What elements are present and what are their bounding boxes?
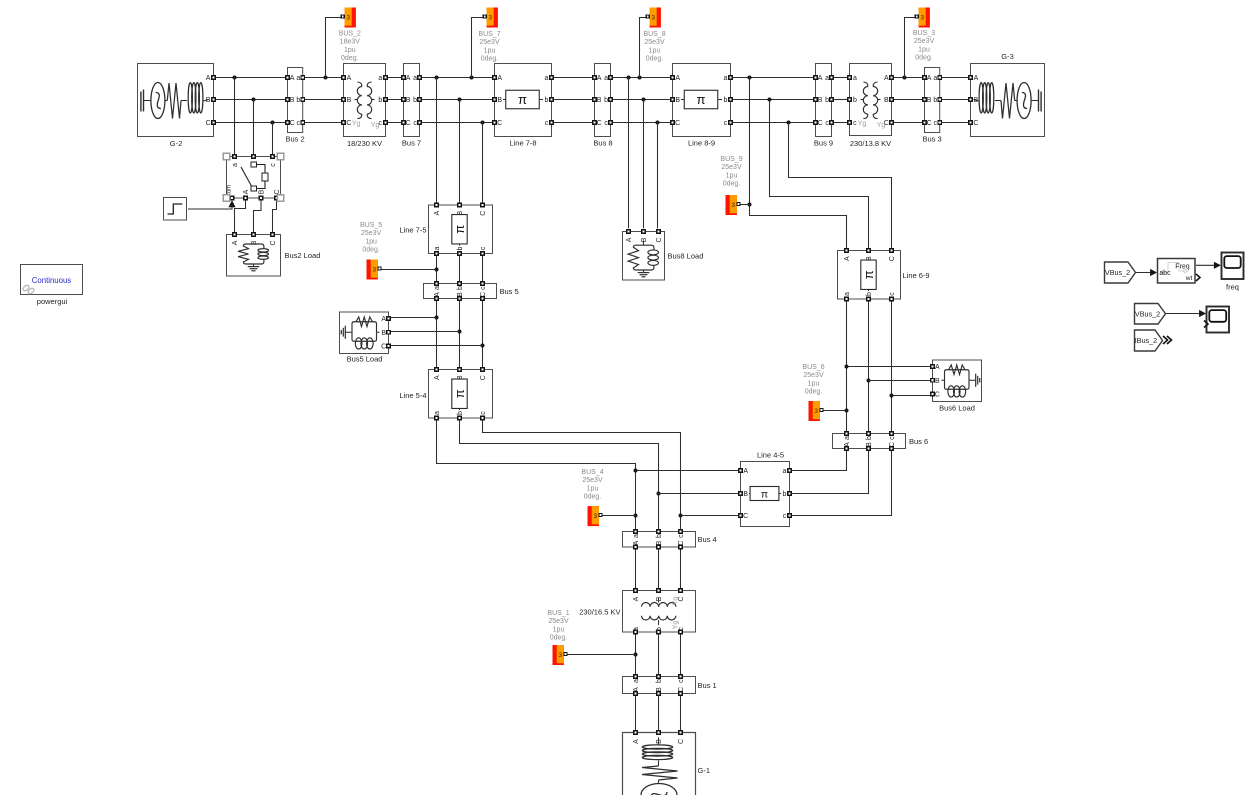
svg-text:G-3: G-3 bbox=[1001, 52, 1014, 61]
wire phase C Bus 3 to G-3 bbox=[941, 122, 968, 124]
node Bus8 Load tap C bbox=[656, 121, 660, 125]
svg-text:b: b bbox=[783, 491, 787, 498]
svg-text:A: A bbox=[597, 75, 602, 82]
node BUS_4 tap bbox=[634, 514, 638, 518]
wire BUS_5 measurement bbox=[381, 269, 436, 271]
svg-text:0deg.: 0deg. bbox=[341, 55, 359, 62]
svg-text:C: C bbox=[675, 120, 680, 127]
svg-text:BUS_5: BUS_5 bbox=[360, 222, 382, 229]
annotation BUS_7 25e3V 1pu 0deg bbox=[478, 31, 500, 63]
svg-text:1pu: 1pu bbox=[726, 172, 738, 179]
svg-text:A: A bbox=[818, 75, 823, 82]
step source block bbox=[164, 198, 187, 221]
svg-text:a: a bbox=[434, 411, 441, 415]
transformer 230/13.8 KV bbox=[848, 64, 894, 136]
svg-text:Line 7-8: Line 7-8 bbox=[509, 139, 536, 148]
svg-text:B: B bbox=[641, 237, 648, 242]
svg-text:0deg.: 0deg. bbox=[805, 389, 823, 396]
label Bus5 Load bbox=[347, 355, 383, 364]
svg-text:C: C bbox=[889, 442, 896, 447]
svg-text:Line 8-9: Line 8-9 bbox=[688, 139, 715, 148]
svg-text:230/16.5 KV: 230/16.5 KV bbox=[579, 608, 620, 617]
bus block Bus 1 bbox=[623, 675, 696, 696]
svg-text:C: C bbox=[270, 240, 277, 245]
svg-text:3: 3 bbox=[373, 266, 377, 273]
svg-text:BUS_2: BUS_2 bbox=[339, 31, 361, 38]
label Bus 2 bbox=[286, 135, 305, 144]
wire Line 6-9 feed B bbox=[770, 100, 869, 250]
svg-text:Bus 2: Bus 2 bbox=[286, 135, 305, 144]
node Line 7-5 tap B bbox=[458, 98, 462, 102]
node Bus5 Load tap A bbox=[435, 316, 439, 320]
svg-text:3: 3 bbox=[920, 14, 924, 21]
bus block Bus 6 bbox=[833, 432, 906, 451]
svg-text:1pu: 1pu bbox=[649, 47, 661, 54]
wire Bus 5 B to Line 5-4 bbox=[459, 300, 461, 367]
ground (inside Bus2 Load) bbox=[248, 264, 260, 271]
powergui block bbox=[21, 265, 83, 295]
svg-text:25e3V: 25e3V bbox=[479, 39, 500, 46]
wire phase A Bus 7 to Line 7-8 bbox=[421, 77, 492, 79]
from tag VBus_2 (freq chain) bbox=[1105, 262, 1136, 283]
wire Bus 6 A to Line 4-5 a bbox=[791, 450, 846, 470]
node Bus5 Load tap B bbox=[458, 330, 462, 334]
svg-text:A: A bbox=[844, 442, 851, 447]
svg-text:Bus2 Load: Bus2 Load bbox=[285, 251, 321, 260]
label powergui bbox=[37, 297, 68, 306]
wire 230/16.5 KV b to Bus 1 bbox=[658, 634, 660, 675]
frequency measurement block abc-Freq-wt bbox=[1158, 259, 1201, 284]
svg-text:A: A bbox=[434, 292, 441, 297]
ground (inside G-3) bbox=[1039, 90, 1042, 112]
svg-text:1pu: 1pu bbox=[365, 238, 377, 245]
svg-text:a: a bbox=[844, 292, 851, 296]
label Line 7-5 bbox=[399, 226, 426, 235]
svg-text:π: π bbox=[861, 270, 876, 279]
svg-text:3: 3 bbox=[346, 14, 350, 21]
wire Bus 4 C to 230/16.5 KV bbox=[680, 549, 682, 589]
svg-text:A: A bbox=[743, 468, 748, 475]
svg-text:A: A bbox=[974, 75, 979, 82]
label G-3 bbox=[1001, 52, 1014, 61]
ground (inside Bus6 Load) bbox=[974, 374, 980, 387]
svg-text:Bus 9: Bus 9 bbox=[814, 139, 833, 148]
svg-text:Yg: Yg bbox=[371, 122, 380, 129]
node Line 6-9 tap A bbox=[748, 76, 752, 80]
node BUS_8 tap bbox=[638, 76, 642, 80]
wire phase A Bus 8 to Line 8-9 bbox=[612, 77, 670, 79]
wire Bus8 Load drop B bbox=[643, 100, 645, 229]
node BUS_5 tap bbox=[435, 268, 439, 272]
svg-text:a: a bbox=[545, 75, 549, 82]
svg-text:1pu: 1pu bbox=[344, 47, 356, 54]
svg-text:b: b bbox=[933, 97, 937, 104]
wire Line 4-5 input A bbox=[636, 470, 739, 472]
wire breaker drop a bbox=[234, 78, 236, 155]
three-phase breaker bbox=[223, 153, 283, 201]
svg-text:0deg.: 0deg. bbox=[481, 56, 499, 63]
wire BUS_9 measurement bbox=[739, 204, 750, 206]
scope BUS_5 bbox=[367, 260, 382, 280]
bus block Bus 5 bbox=[424, 282, 497, 301]
node BUS_3 tap bbox=[903, 76, 907, 80]
svg-text:a: a bbox=[633, 627, 640, 631]
svg-text:A: A bbox=[626, 237, 633, 242]
wire Line 7-5 drop A bbox=[436, 78, 438, 204]
node Bus8 Load tap A bbox=[627, 76, 631, 80]
wire Bus 4 A to 230/16.5 KV bbox=[635, 549, 637, 589]
svg-text:Continuous: Continuous bbox=[32, 276, 72, 285]
svg-text:A: A bbox=[206, 75, 211, 82]
svg-text:Bus6 Load: Bus6 Load bbox=[939, 404, 975, 413]
wire Line 6-9 a to Bus 6 bbox=[846, 300, 848, 431]
label 230/13.8 KV bbox=[850, 139, 891, 148]
wire Bus8 Load drop A bbox=[628, 78, 630, 229]
svg-text:18e3V: 18e3V bbox=[340, 39, 361, 46]
wire phase B 230/13.8 KV to Bus 3 bbox=[892, 99, 923, 101]
svg-text:B: B bbox=[656, 687, 663, 692]
scope BUS_8 bbox=[646, 8, 661, 28]
wire BUS_7 measurement bbox=[472, 18, 485, 78]
svg-text:c: c bbox=[413, 120, 417, 127]
svg-text:1pu: 1pu bbox=[484, 47, 496, 54]
svg-text:BUS_3: BUS_3 bbox=[913, 30, 935, 37]
svg-text:B: B bbox=[497, 97, 502, 104]
bus block Bus 3 bbox=[923, 68, 942, 133]
bus block Bus 7 bbox=[402, 64, 422, 137]
wire phase b Line 7-8 to Bus 8 bbox=[552, 99, 593, 101]
wire phase B Bus 2 to 18/230 KV bbox=[304, 99, 341, 101]
svg-text:c: c bbox=[270, 163, 277, 167]
svg-text:G-1: G-1 bbox=[698, 766, 711, 775]
svg-text:0deg.: 0deg. bbox=[550, 635, 568, 642]
svg-text:B: B bbox=[381, 330, 386, 337]
annotation BUS_2 18e3V 1pu 0deg bbox=[339, 31, 361, 63]
svg-text:IBus_2: IBus_2 bbox=[1135, 336, 1157, 345]
generator G-2 bbox=[138, 64, 216, 137]
svg-text:b: b bbox=[866, 436, 873, 440]
svg-text:A: A bbox=[633, 687, 640, 692]
svg-text:C: C bbox=[381, 344, 386, 351]
svg-text:A: A bbox=[844, 256, 851, 261]
svg-text:C: C bbox=[818, 120, 823, 127]
wire Line 7-5 c to Bus 5 bbox=[482, 255, 484, 282]
scope BUS_3 bbox=[915, 8, 930, 28]
svg-text:25e3V: 25e3V bbox=[914, 38, 935, 45]
svg-text:A: A bbox=[290, 75, 295, 82]
wire breaker B to Bus2 Load bbox=[254, 200, 262, 233]
wire BUS_4 measurement bbox=[601, 515, 635, 517]
ground (inside G-2) bbox=[141, 90, 144, 112]
annotation BUS_8 25e3V 1pu 0deg bbox=[643, 31, 665, 63]
wire BUS_1 measurement bbox=[566, 654, 636, 656]
svg-text:Bus8 Load: Bus8 Load bbox=[668, 252, 704, 261]
wire Bus5 Load B bbox=[391, 331, 460, 333]
svg-text:a: a bbox=[232, 163, 239, 167]
svg-text:Line 7-5: Line 7-5 bbox=[399, 226, 426, 235]
svg-text:π: π bbox=[452, 389, 467, 398]
from tag VBus_2 (scope chain) bbox=[1135, 304, 1166, 325]
node BUS_6 tap bbox=[845, 409, 849, 413]
svg-text:A: A bbox=[633, 739, 640, 744]
svg-text:25e3V: 25e3V bbox=[361, 230, 382, 237]
arrowhead into Scope bbox=[1199, 310, 1206, 317]
svg-text:c: c bbox=[604, 120, 608, 127]
label Line 5-4 bbox=[399, 391, 426, 400]
node Line 7-5 tap A bbox=[435, 76, 439, 80]
svg-text:a: a bbox=[783, 468, 787, 475]
svg-text:c: c bbox=[545, 120, 549, 127]
svg-text:1pu: 1pu bbox=[553, 626, 565, 633]
svg-text:b: b bbox=[656, 679, 663, 683]
svg-text:1pu: 1pu bbox=[587, 485, 599, 492]
svg-text:BUS_9: BUS_9 bbox=[720, 156, 742, 163]
bus block Bus 9 bbox=[814, 64, 834, 137]
wire Line 4-5 input B bbox=[659, 493, 739, 495]
svg-text:Bus5 Load: Bus5 Load bbox=[347, 355, 383, 364]
svg-text:18/230 KV: 18/230 KV bbox=[347, 139, 382, 148]
svg-text:a: a bbox=[724, 75, 728, 82]
scope BUS_9 bbox=[726, 195, 741, 215]
label G-1 bbox=[698, 766, 711, 775]
wire phase C Bus 7 to Line 7-8 bbox=[421, 122, 492, 124]
svg-text:c: c bbox=[678, 534, 685, 538]
wire Bus 6 B to Line 4-5 b bbox=[791, 450, 868, 493]
svg-text:c: c bbox=[889, 436, 896, 440]
svg-text:BUS_4: BUS_4 bbox=[581, 469, 603, 476]
wire phase b 18/230 KV to Bus 7 bbox=[386, 99, 402, 101]
svg-text:C: C bbox=[973, 120, 978, 127]
svg-text:C: C bbox=[678, 739, 685, 744]
node breaker tap B bbox=[252, 98, 256, 102]
svg-text:c: c bbox=[783, 513, 787, 520]
ground (inside Bus5 Load) bbox=[341, 326, 347, 339]
svg-text:BUS_8: BUS_8 bbox=[643, 31, 665, 38]
svg-text:B: B bbox=[675, 97, 680, 104]
svg-text:a: a bbox=[434, 286, 441, 290]
load Bus8 Load bbox=[623, 230, 665, 280]
svg-text:c: c bbox=[934, 120, 938, 127]
scope BUS_4 bbox=[588, 506, 603, 526]
wire VBus_2 to Scope bbox=[1166, 313, 1206, 315]
wire phase A Bus 3 to G-3 bbox=[941, 77, 968, 79]
wire Line 6-9 c to Bus 6 bbox=[891, 300, 893, 431]
node Line 6-9 tap B bbox=[768, 98, 772, 102]
wire phase C Bus 2 to 18/230 KV bbox=[304, 122, 341, 124]
svg-text:wt: wt bbox=[1185, 275, 1193, 282]
node Line 7-5 tap C bbox=[481, 121, 485, 125]
svg-text:0deg.: 0deg. bbox=[723, 181, 741, 188]
svg-text:25e3V: 25e3V bbox=[721, 164, 742, 171]
svg-text:C: C bbox=[497, 120, 502, 127]
pi line Line 4-5 bbox=[739, 462, 792, 527]
annotation BUS_3 25e3V 1pu 0deg bbox=[913, 30, 935, 62]
svg-text:A: A bbox=[434, 211, 441, 216]
svg-text:Bus 4: Bus 4 bbox=[698, 535, 717, 544]
svg-text:A: A bbox=[633, 596, 640, 601]
arrowhead into com port bbox=[228, 200, 235, 207]
svg-text:b: b bbox=[378, 97, 382, 104]
wire 230/16.5 KV c to Bus 1 bbox=[680, 634, 682, 675]
svg-text:3: 3 bbox=[559, 652, 563, 659]
svg-text:B: B bbox=[656, 540, 663, 545]
wire 230/16.5 KV a to Bus 1 bbox=[635, 634, 637, 675]
scope BUS_1 bbox=[553, 645, 568, 665]
svg-text:A: A bbox=[884, 75, 889, 82]
wire Line 7-5 b to Bus 5 bbox=[459, 255, 461, 282]
svg-text:C: C bbox=[274, 189, 281, 194]
svg-text:B: B bbox=[597, 97, 602, 104]
svg-text:1pu: 1pu bbox=[808, 380, 820, 387]
label freq bbox=[1226, 283, 1239, 292]
wire phase a Line 8-9 to Bus 9 bbox=[731, 77, 814, 79]
wire phase B Bus 3 to G-3 bbox=[941, 99, 968, 101]
svg-text:A: A bbox=[243, 189, 250, 194]
scope BUS_2 bbox=[341, 8, 356, 28]
svg-text:25e3V: 25e3V bbox=[582, 477, 603, 484]
wire Line 7-5 drop C bbox=[482, 123, 484, 204]
bus block Bus 4 bbox=[623, 530, 696, 549]
svg-text:C: C bbox=[480, 211, 487, 216]
label Line 7-8 bbox=[509, 139, 536, 148]
node Line 4-5 A branch bbox=[634, 469, 638, 473]
svg-text:B: B bbox=[866, 442, 873, 447]
annotation BUS_5 25e3V 1pu 0deg bbox=[360, 222, 382, 254]
svg-text:b: b bbox=[825, 97, 829, 104]
svg-text:3: 3 bbox=[594, 513, 598, 520]
svg-text:C: C bbox=[206, 120, 211, 127]
wire breaker C to Bus2 Load bbox=[273, 200, 277, 233]
svg-text:π: π bbox=[518, 92, 527, 107]
wire BUS_3 measurement bbox=[905, 18, 917, 78]
svg-text:C: C bbox=[743, 513, 748, 520]
svg-text:powergui: powergui bbox=[37, 297, 68, 306]
svg-text:freq: freq bbox=[1226, 283, 1239, 292]
svg-text:A: A bbox=[347, 75, 352, 82]
wire Line 6-9 feed A bbox=[750, 78, 847, 250]
svg-text:Yg: Yg bbox=[673, 597, 680, 606]
label Line 6-9 bbox=[903, 271, 930, 280]
transformer 18/230 KV bbox=[342, 64, 388, 137]
label Bus 8 bbox=[593, 139, 612, 148]
svg-text:C: C bbox=[480, 375, 487, 380]
svg-text:3: 3 bbox=[732, 202, 736, 209]
svg-text:A: A bbox=[935, 364, 940, 371]
svg-text:abc: abc bbox=[1159, 270, 1171, 277]
wire phase B Bus 7 to Line 7-8 bbox=[421, 99, 492, 101]
svg-text:A: A bbox=[497, 75, 502, 82]
svg-text:A: A bbox=[381, 316, 386, 323]
svg-text:Yg: Yg bbox=[352, 121, 361, 128]
wire phase B G-2 to Bus 2 bbox=[214, 99, 286, 101]
svg-text:b: b bbox=[296, 97, 300, 104]
wire phase c 18/230 KV to Bus 7 bbox=[386, 122, 402, 124]
svg-text:b: b bbox=[656, 627, 663, 631]
wire Line 5-4 c to Bus 4 column bbox=[483, 420, 681, 530]
wire BUS_8 measurement bbox=[640, 18, 648, 78]
svg-text:a: a bbox=[633, 679, 640, 683]
scope (VBus_2/IBus_2) bbox=[1204, 307, 1229, 333]
svg-text:3: 3 bbox=[651, 14, 655, 21]
label Bus 6 bbox=[909, 437, 928, 446]
wire Line 5-4 a to Bus 4 column bbox=[437, 420, 636, 530]
pi line Line 7-8 bbox=[493, 64, 554, 137]
svg-text:A: A bbox=[232, 240, 239, 245]
svg-text:3: 3 bbox=[488, 14, 492, 21]
svg-text:b: b bbox=[656, 534, 663, 538]
wire Line 7-5 drop B bbox=[459, 100, 461, 204]
svg-text:B: B bbox=[818, 97, 823, 104]
wire phase A Bus 2 to 18/230 KV bbox=[304, 77, 341, 79]
wire Bus8 Load drop C bbox=[657, 123, 659, 229]
load Bus6 Load bbox=[931, 360, 982, 402]
wire phase C Bus 9 to 230/13.8 KV bbox=[833, 122, 847, 124]
wire BUS_2 measurement bbox=[326, 18, 343, 78]
wire Bus 6 C to Line 4-5 c bbox=[791, 450, 891, 515]
node Line 6-9 tap C bbox=[787, 121, 791, 125]
svg-text:π: π bbox=[697, 92, 706, 107]
svg-text:Bus 3: Bus 3 bbox=[923, 135, 942, 144]
svg-text:c: c bbox=[853, 120, 857, 127]
node Bus8 Load tap B bbox=[642, 98, 646, 102]
svg-text:Yg: Yg bbox=[877, 122, 886, 129]
node BUS_7 tap bbox=[470, 76, 474, 80]
svg-text:B: B bbox=[743, 491, 748, 498]
svg-text:BUS_7: BUS_7 bbox=[478, 31, 500, 38]
svg-text:1pu: 1pu bbox=[918, 46, 930, 53]
svg-text:C: C bbox=[889, 256, 896, 261]
svg-text:C: C bbox=[290, 120, 295, 127]
svg-text:a: a bbox=[434, 246, 441, 250]
node BUS_9 tap bbox=[748, 203, 752, 207]
svg-text:b: b bbox=[724, 97, 728, 104]
node Bus6 Load tap A bbox=[845, 365, 849, 369]
svg-text:b: b bbox=[545, 97, 549, 104]
svg-text:c: c bbox=[480, 286, 487, 290]
wire Bus5 Load A bbox=[391, 317, 437, 319]
wire Step to breaker com bbox=[188, 202, 232, 209]
wire phase C 230/13.8 KV to Bus 3 bbox=[892, 122, 923, 124]
svg-text:π: π bbox=[452, 225, 467, 234]
svg-text:C: C bbox=[406, 120, 411, 127]
svg-text:A: A bbox=[675, 75, 680, 82]
svg-text:b: b bbox=[457, 286, 464, 290]
wire Bus 1 B to G-1 bbox=[658, 695, 660, 730]
generator G-3 bbox=[969, 64, 1045, 137]
pi line Line 7-5 bbox=[429, 203, 493, 255]
generator G-1 bbox=[623, 731, 696, 800]
svg-text:A: A bbox=[434, 375, 441, 380]
wire breaker drop c bbox=[272, 123, 274, 155]
svg-text:c: c bbox=[297, 120, 301, 127]
wire phase a 18/230 KV to Bus 7 bbox=[386, 77, 402, 79]
label Line 8-9 bbox=[688, 139, 715, 148]
svg-text:0deg.: 0deg. bbox=[915, 55, 933, 62]
svg-text:Line 5-4: Line 5-4 bbox=[399, 391, 426, 400]
wire phase B Bus 8 to Line 8-9 bbox=[612, 99, 670, 101]
svg-text:Freq: Freq bbox=[1175, 264, 1190, 271]
wire Line 4-5 input C bbox=[681, 515, 739, 517]
wire VBus_2 to Freq block bbox=[1136, 272, 1157, 274]
label Bus2 Load bbox=[285, 251, 321, 260]
wire Line 7-5 a to Bus 5 bbox=[436, 255, 438, 282]
svg-text:G-2: G-2 bbox=[170, 139, 183, 148]
arrowhead into Freq block abc bbox=[1150, 269, 1157, 276]
svg-text:b: b bbox=[604, 97, 608, 104]
svg-text:C: C bbox=[927, 120, 932, 127]
node Line 4-5 B branch bbox=[657, 492, 661, 496]
node Bus5 Load tap C bbox=[481, 344, 485, 348]
